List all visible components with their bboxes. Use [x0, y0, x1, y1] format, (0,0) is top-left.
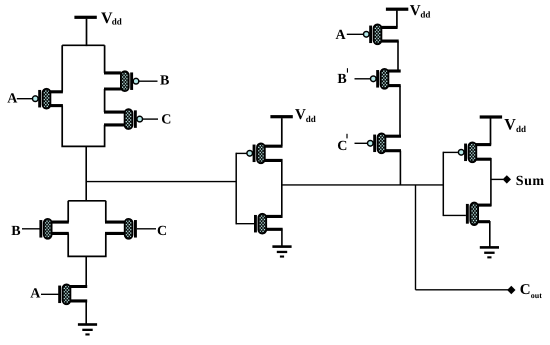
- label Vdd (stage-2): [410, 3, 431, 20]
- svg-text:C: C: [520, 282, 531, 298]
- svg-text:V: V: [410, 3, 421, 19]
- nmos M4 (input B, stage-1 pull-down): [22, 219, 69, 239]
- svg-text:C: C: [337, 139, 347, 154]
- wire: stage-2 B' drain to C' source: [399, 86, 401, 137]
- node Cout (diamond): [507, 286, 515, 295]
- pmos M3 (input C, stage-1 pull-up): [104, 109, 158, 129]
- svg-text:dd: dd: [420, 10, 430, 20]
- label Vdd (inverter-2): [504, 116, 526, 134]
- label C' (stage-2): [337, 134, 347, 154]
- svg-text:C: C: [157, 224, 167, 239]
- Vdd symbol (inverter-2): [480, 115, 502, 144]
- svg-text:V: V: [295, 107, 306, 123]
- svg-text:A: A: [7, 92, 18, 107]
- svg-text:A: A: [30, 287, 41, 302]
- svg-text:C: C: [161, 113, 171, 128]
- pmos M2 (input B, stage-1 pull-up): [104, 71, 158, 91]
- svg-text:dd: dd: [112, 17, 122, 27]
- ground (stage-1): [78, 323, 97, 335]
- label Vdd (inverter-1): [295, 107, 316, 124]
- node Sum (diamond): [503, 175, 511, 183]
- svg-text:B: B: [337, 72, 346, 87]
- pmos M10 (input B', stage-2): [355, 69, 401, 89]
- wire: stage-2 drain to output bus: [399, 151, 401, 186]
- svg-text:dd: dd: [516, 124, 526, 134]
- Vdd symbol (stage-1 pull-up): [74, 16, 96, 46]
- wire: Cout horizontal: [416, 289, 509, 291]
- nmos M8 (inverter-1): [236, 214, 282, 234]
- svg-text:dd: dd: [306, 114, 316, 124]
- wire: inverter-1 output bus: [282, 184, 444, 186]
- wire: inverter-2 drain link: [490, 158, 492, 206]
- svg-text:B: B: [11, 224, 20, 239]
- wire: pull-down to foot nmos: [85, 256, 87, 288]
- svg-text:V: V: [504, 116, 516, 133]
- nmos M13 (inverter-2): [443, 203, 491, 225]
- svg-text:out: out: [531, 291, 542, 300]
- svg-text:A: A: [336, 28, 347, 43]
- wire: pull-up to pull-down stem: [85, 146, 87, 201]
- wire: inverter-1 pmos drain to nmos drain: [281, 159, 283, 218]
- wire: inverter-1 input bar: [235, 153, 237, 225]
- wire: inverter-2 input bar: [442, 152, 444, 216]
- label B' (stage-2): [337, 68, 348, 87]
- pmos M9 (input A, stage-2): [347, 24, 399, 44]
- ground (inverter-1): [272, 245, 291, 257]
- label Cout: [520, 282, 543, 300]
- wire: stage-2 A drain to B' source: [397, 41, 399, 71]
- Vdd symbol (inverter-1): [270, 115, 292, 146]
- wire: foot nmos to ground: [85, 301, 87, 325]
- wire: inverter-1 nmos source to ground: [281, 229, 283, 247]
- pmos M11 (input C', stage-2): [355, 133, 402, 153]
- label Vdd (stage-1): [101, 10, 122, 27]
- pmos M12 (inverter-2): [443, 142, 491, 162]
- wire: pull-down network loop: [68, 201, 106, 257]
- wire: stage-1 output to inverter-1 input: [86, 181, 236, 183]
- pmos M7 (inverter-1): [236, 143, 282, 163]
- svg-text:B: B: [160, 74, 169, 89]
- wire: inverter-2 nmos to ground: [489, 221, 491, 247]
- pmos M1 (input A, stage-1 pull-up): [17, 89, 63, 109]
- Vdd symbol (stage-2): [386, 8, 408, 28]
- svg-text:Sum: Sum: [516, 174, 545, 189]
- wire: pull-up network loop: [62, 45, 104, 147]
- nmos M5 (input C, stage-1 pull-down): [105, 219, 156, 239]
- nmos M6 (input A, stage-1 foot): [41, 284, 87, 304]
- wire: Sum output: [491, 178, 503, 180]
- wire: Cout drop: [415, 185, 417, 290]
- ground (inverter-2): [480, 246, 499, 258]
